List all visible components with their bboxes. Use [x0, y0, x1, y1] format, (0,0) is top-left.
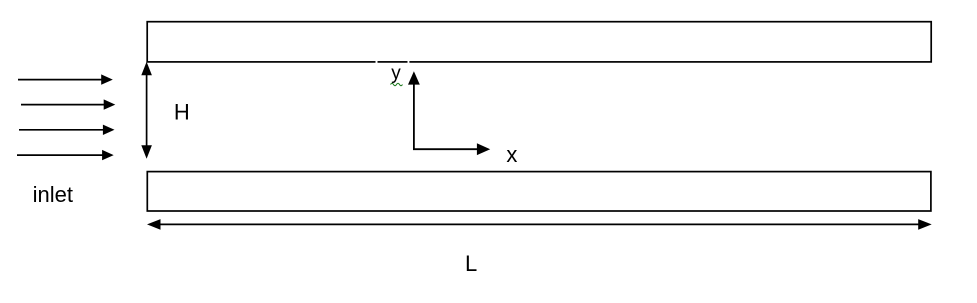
svg-text:H: H: [174, 100, 190, 125]
gap in top plate bottom edge (right of y label): [408, 60, 410, 64]
dimension arrow H (double-headed vertical between plates): [141, 62, 152, 159]
inlet arrow 4: [17, 150, 114, 160]
inlet arrow 2: [21, 99, 115, 109]
grammar squiggle under y: [391, 83, 403, 86]
svg-text:L: L: [465, 251, 477, 276]
x-axis arrow: [413, 143, 490, 155]
svg-text:x: x: [506, 142, 517, 167]
y-axis arrow: [408, 71, 420, 149]
top plate (upper channel wall rectangle): [147, 22, 931, 62]
svg-text:y: y: [391, 63, 401, 84]
svg-text:inlet: inlet: [33, 182, 73, 207]
bottom plate (lower channel wall rectangle): [147, 172, 931, 211]
inlet arrow 1: [18, 74, 113, 84]
gap in top plate bottom edge (left of y label): [376, 60, 378, 64]
dimension arrow L (double-headed horizontal under bottom plate): [147, 219, 932, 230]
inlet arrow 3: [19, 125, 115, 135]
